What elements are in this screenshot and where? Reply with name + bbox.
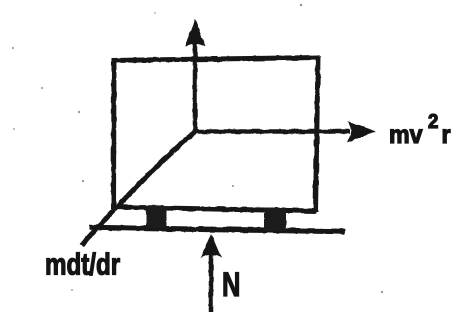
diagonal axis wire mdt/dr	[82, 131, 196, 245]
support block left	[146, 206, 167, 228]
box body (block M)	[112, 57, 320, 213]
scan speckles	[12, 4, 383, 293]
label mv^2 r	[389, 111, 451, 149]
box top edge	[112, 58, 320, 61]
svg-text:mdt/dr: mdt/dr	[45, 247, 120, 282]
box left edge	[111, 58, 117, 209]
box right edge	[316, 57, 319, 213]
svg-text:N: N	[222, 267, 240, 304]
svg-text:mv: mv	[389, 121, 423, 149]
vertical axis arrowhead	[185, 19, 206, 47]
vertical axis wire	[193, 42, 198, 133]
svg-text:r: r	[442, 121, 452, 149]
normal force N arrow shaft	[209, 252, 214, 312]
ground line	[89, 228, 345, 232]
svg-text:2: 2	[428, 111, 438, 133]
box bottom edge	[112, 207, 316, 211]
normal force N arrowhead	[201, 234, 222, 259]
horizontal axis arrowhead mv^2 r	[347, 121, 376, 143]
horizontal axis wire	[193, 129, 350, 134]
support block right	[264, 208, 286, 232]
